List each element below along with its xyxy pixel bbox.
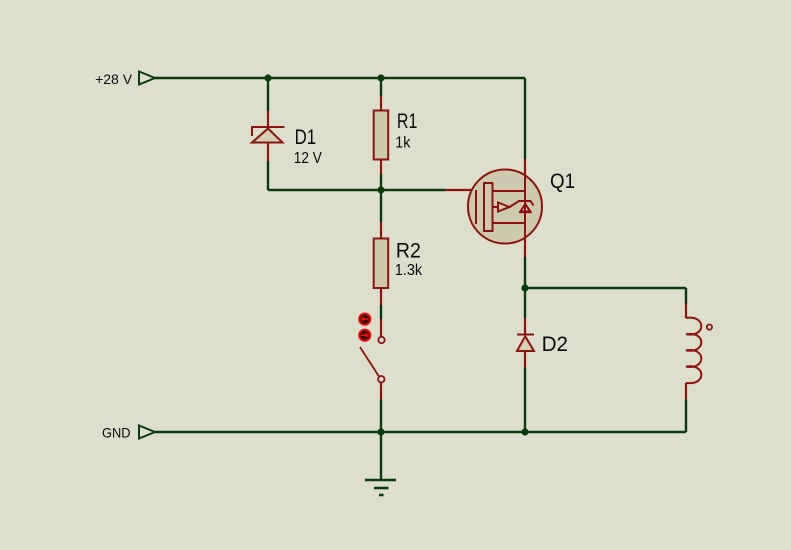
svg-text:R2: R2	[396, 240, 421, 263]
svg-text:D2: D2	[542, 333, 569, 356]
svg-text:Q1: Q1	[550, 170, 575, 193]
svg-text:D1: D1	[295, 126, 317, 149]
svg-text:GND: GND	[102, 425, 131, 441]
svg-text:12 V: 12 V	[294, 150, 323, 167]
svg-text:+28 V: +28 V	[95, 71, 133, 87]
svg-text:1k: 1k	[395, 134, 410, 151]
svg-text:1.3k: 1.3k	[395, 262, 423, 279]
svg-text:R1: R1	[397, 110, 418, 133]
